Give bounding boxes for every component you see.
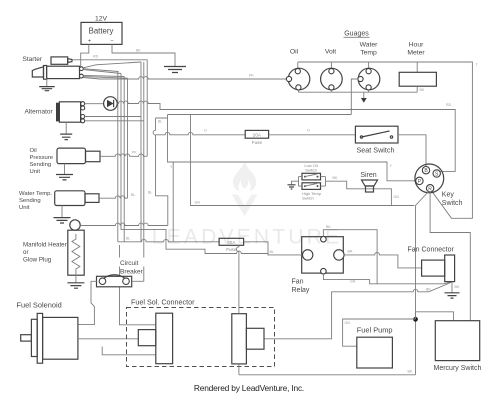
battery 12V [81,16,122,45]
glow plug heating element zigzag [72,234,80,275]
water temp gauge [358,68,380,90]
ground battery [164,67,186,73]
svg-text:BK: BK [426,288,431,292]
ground arrow below gauges [363,92,365,98]
fuse F1 20A [245,130,268,144]
svg-text:Glow Plug: Glow Plug [23,257,52,264]
svg-text:PK: PK [132,151,137,155]
svg-text:RD: RD [93,55,99,59]
svg-text:BK: BK [136,49,141,53]
hour meter box [399,72,436,86]
svg-text:Fuse: Fuse [226,247,237,252]
svg-text:O: O [307,129,310,133]
wire starter to oil gauge PK [83,77,286,79]
svg-text:Meter: Meter [407,50,425,57]
fuel pump outer wire GN [343,319,416,346]
wire breaker left to fuel solenoid [78,281,97,324]
svg-text:R: R [428,186,432,192]
wire drop to oil gauge top [297,62,299,69]
wire fuel sol connector to fan connector BK [264,282,452,339]
svg-text:Switch: Switch [305,168,317,173]
svg-text:Oil: Oil [290,49,299,56]
wire alternator pin4 [85,120,144,122]
svg-text:12V: 12V [95,16,108,23]
svg-text:Sending: Sending [30,162,52,168]
key terminal S [433,170,440,178]
siren horn [362,180,378,192]
wire water sender BL to bus [99,196,128,198]
switch right bracket [321,177,326,187]
svg-text:BK: BK [333,176,338,180]
wire starter fanout to trunk2 [83,69,118,72]
svg-text:Fuse: Fuse [252,140,263,145]
svg-text:Siren: Siren [360,172,376,179]
svg-text:Circuit: Circuit [120,260,139,267]
svg-text:BL: BL [148,191,152,195]
svg-text:BK: BK [455,285,460,289]
alternator end bars [56,103,59,122]
wire fuse to seat switch [269,134,356,136]
vertical bus line BR1 [140,62,142,242]
svg-text:Fan Connector: Fan Connector [408,247,455,254]
connector left pin [138,313,172,364]
svg-text:Fuel Solenoid: Fuel Solenoid [17,301,62,310]
wire Y riser down to lower fuse feed [172,162,174,242]
svg-text:BL: BL [270,250,274,254]
gauge bottom common wire [298,86,417,92]
svg-text:Fuel Sol. Connector: Fuel Sol. Connector [131,298,195,307]
alternator ground [65,122,67,134]
water sender ground [61,206,63,218]
wire relay bottom GN to fan connector ground [323,274,452,284]
svg-text:Water: Water [360,42,379,49]
svg-text:BL: BL [131,193,135,197]
vertical bus line to oil sender [81,60,148,157]
svg-text:PK: PK [249,74,254,78]
fuse F2 30A [219,238,244,252]
oil sender ground [64,164,66,175]
trunk vertical 3 [123,77,125,242]
glow plug ball terminal [70,220,80,230]
svg-text:BL: BL [126,237,130,241]
wire drop to hour meter top [416,62,418,72]
fan relay terminal left [303,250,313,260]
svg-text:GN: GN [345,321,351,325]
wire breaker right up to bus [132,280,144,282]
svg-text:BR: BR [348,250,353,254]
svg-text:Temp: Temp [360,50,377,57]
wire seat switch to key B [398,135,426,167]
wire oil sender PK to bus [100,154,147,156]
wire fuel solenoid to connector stem [78,338,138,340]
svg-text:GN: GN [195,201,201,205]
starter solenoid [51,57,72,64]
fan connector plug [422,255,455,282]
fuel sol connector dashed box [127,308,275,367]
wire 20A fuse feed from BL riser [156,132,246,134]
low oil switch [302,173,321,180]
svg-text:Mercury Switch: Mercury Switch [434,365,482,372]
fuel solenoid body [21,313,78,363]
wire relay right to fan connector [344,253,422,268]
svg-text:Hour: Hour [409,42,424,49]
watermark flame logo [232,162,258,217]
wire fuse to fan relay left [244,242,303,255]
starter connector bottom [80,74,84,78]
svg-text:30A: 30A [227,240,236,245]
key terminal R [426,185,433,193]
wire alternator pin3 [85,116,141,118]
fan relay terminal top [321,236,327,242]
starter ground [46,79,48,87]
oil pressure sending unit body [57,148,100,164]
wire BL riser from box corner down to glow wire [153,118,168,226]
svg-text:or: or [23,249,29,256]
wire key R down to mercury feed [430,192,470,321]
circuit breaker [97,275,132,287]
svg-text:Sending: Sending [19,198,41,204]
wire diode output with hops stepping to bus [117,101,455,171]
svg-text:Alternator: Alternator [25,109,54,116]
svg-text:Pressure: Pressure [30,155,54,161]
svg-text:GN: GN [350,280,356,284]
svg-text:Oil: Oil [30,148,37,154]
wire connector right pin bottom BK [238,364,240,375]
wire battery - to ground [112,45,175,67]
volt gauge [321,68,343,90]
svg-text:Seat Switch: Seat Switch [357,146,395,155]
wire fuse down to connector right pin [236,245,238,313]
wire glow plug to BL riser with hops [80,223,168,225]
starter connector top [80,67,84,71]
fan relay terminal right [334,250,344,260]
circuit breaker label [115,258,148,267]
fan relay box [302,237,344,273]
svg-text:Fan: Fan [292,279,304,286]
wire battery + to starter top wire [81,45,89,67]
glow plug resistor body [68,230,84,275]
junction dot [413,317,418,322]
vertical bus line BR2 [143,62,145,281]
svg-text:BK: BK [408,370,413,374]
svg-text:Water Temp.: Water Temp. [19,191,52,197]
svg-text:+: + [88,39,91,45]
starter body [32,66,79,80]
wire fuel solenoid lower to connector pin [102,347,156,355]
switch left bracket to ground [292,177,303,187]
junction nub 1 [350,109,352,111]
trunk vertical 1 [117,72,119,242]
oil gauge [286,68,309,90]
svg-text:Manifold Heater: Manifold Heater [23,242,67,249]
fan relay terminal bottom [321,268,327,274]
wire alternator to diode [85,103,104,105]
svg-text:20A: 20A [253,133,262,138]
svg-text:BK: BK [420,88,425,92]
wire junction to mercury switch [416,312,454,321]
svg-text:Guages: Guages [344,31,369,38]
wire relay top BK loop [323,230,377,284]
wire starter fanout to trunk1 [83,62,141,68]
alternator body [59,102,80,122]
wire box top edge Y to key P [191,162,417,181]
svg-text:Breaker: Breaker [120,269,144,276]
svg-text:Starter: Starter [23,56,43,63]
svg-text:Unit: Unit [30,169,41,175]
wire drop to water temp gauge top [368,62,370,69]
wire water temp left terminal to junction riser [351,79,358,115]
seat switch box [355,126,398,143]
svg-text:BK: BK [326,225,331,229]
fuel pump box [357,337,393,368]
wire Q horizontal to gauges junction [168,115,352,163]
key switch body [415,164,444,193]
switch ground [288,185,296,189]
wire switches BK to siren and GN edge [326,181,392,205]
alternator connectors [81,102,85,123]
svg-text:Volt: Volt [325,49,336,56]
connector right pin [232,314,264,364]
svg-text:Unit: Unit [19,205,30,211]
wire starter fanout to trunk4 [83,75,127,78]
glow plug ground [75,275,77,283]
wire top feed RD to gauges and down right edge T [298,62,473,218]
svg-text:Switch: Switch [442,200,463,207]
mercury switch box [435,321,479,361]
trunk vertical 4 [127,78,129,198]
svg-text:GN: GN [394,195,400,199]
wire key R diagonal to pump junction column [239,192,429,375]
svg-text:BL: BL [158,120,162,124]
wire lower fuse feed BL [118,239,219,241]
trunk vertical 2 [121,74,268,255]
fan connector ground [451,282,453,293]
wire solenoid nub to battery feed [72,59,81,61]
svg-text:Rendered by LeadVenture, Inc.: Rendered by LeadVenture, Inc. [194,383,304,393]
diode D1 [104,97,118,111]
wire stub to breaker top [119,245,121,276]
svg-text:RD: RD [446,103,452,107]
svg-text:Relay: Relay [292,287,310,294]
wire box drop from Q [190,115,192,163]
svg-text:−: − [110,38,113,44]
wire box left edge and bottom GN to R diagonal [191,162,415,206]
wire starter fanout to trunk3 [83,70,121,74]
svg-text:O: O [204,129,207,133]
key terminal B [422,167,429,175]
key terminal P [416,177,423,185]
water temp sending unit body [55,191,99,206]
svg-text:Battery: Battery [89,27,114,36]
wire breaker to fuel sol connector pin [120,287,156,325]
svg-text:Key: Key [442,192,455,199]
svg-text:Switch: Switch [302,196,314,201]
high temp switch [302,183,321,190]
wire drop to volt gauge top [330,62,332,69]
svg-text:Fuel Pump: Fuel Pump [357,326,393,335]
